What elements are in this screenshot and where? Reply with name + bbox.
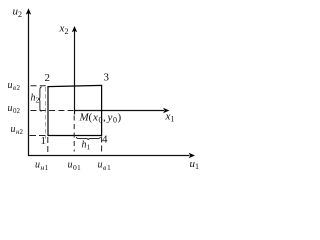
brace for h1 (underbrace) — [76, 137, 100, 140]
svg-text:u: u — [11, 124, 16, 135]
svg-text:0: 0 — [113, 116, 117, 125]
dashed dropline at u_n1 — [47, 136, 49, 152]
dashed companion line left of rectangle edge — [45, 87, 47, 139]
svg-text:u: u — [8, 80, 13, 91]
svg-text:(: ( — [89, 112, 93, 124]
dashed level line u_n2 (bottom) — [30, 135, 48, 137]
svg-text:1: 1 — [45, 163, 49, 172]
svg-text:1: 1 — [195, 162, 199, 171]
svg-text:4: 4 — [102, 134, 108, 146]
svg-text:u: u — [98, 160, 103, 171]
svg-text:1: 1 — [41, 135, 47, 147]
dashed level line u_02 (middle) — [31, 110, 74, 112]
svg-text:2: 2 — [36, 96, 40, 105]
axis x1 (horizontal, through M) — [74, 108, 169, 113]
svg-text:2: 2 — [45, 72, 51, 84]
svg-text:1: 1 — [87, 143, 91, 152]
svg-text:u: u — [68, 160, 73, 171]
axis u2 (vertical, left) — [26, 8, 31, 156]
rectangle of experiment points — [48, 85, 102, 135]
axis u1 (horizontal, bottom) — [28, 153, 195, 158]
svg-text:u: u — [35, 160, 40, 171]
dashed level line u_v2 (top) — [31, 85, 48, 87]
dashed dropline at u_v1 — [101, 136, 103, 152]
svg-text:x: x — [92, 112, 98, 124]
svg-text:2: 2 — [18, 10, 22, 19]
svg-text:1: 1 — [171, 115, 175, 124]
svg-text:2: 2 — [20, 128, 24, 136]
svg-text:,: , — [103, 112, 106, 124]
svg-text:2: 2 — [17, 84, 21, 92]
brace for h2 (left curly brace) — [39, 87, 42, 111]
svg-text:2: 2 — [65, 27, 69, 36]
dashed dropline at u_01 — [73, 115, 75, 152]
svg-text:1: 1 — [77, 163, 81, 172]
svg-text:0: 0 — [99, 116, 103, 125]
svg-text:1: 1 — [107, 163, 111, 172]
svg-text:y: y — [107, 112, 113, 124]
svg-text:3: 3 — [104, 72, 110, 84]
axis x2 (vertical, through M) — [72, 26, 77, 115]
svg-text:2: 2 — [17, 107, 21, 115]
svg-text:u: u — [8, 103, 13, 114]
svg-text:): ) — [118, 112, 122, 124]
